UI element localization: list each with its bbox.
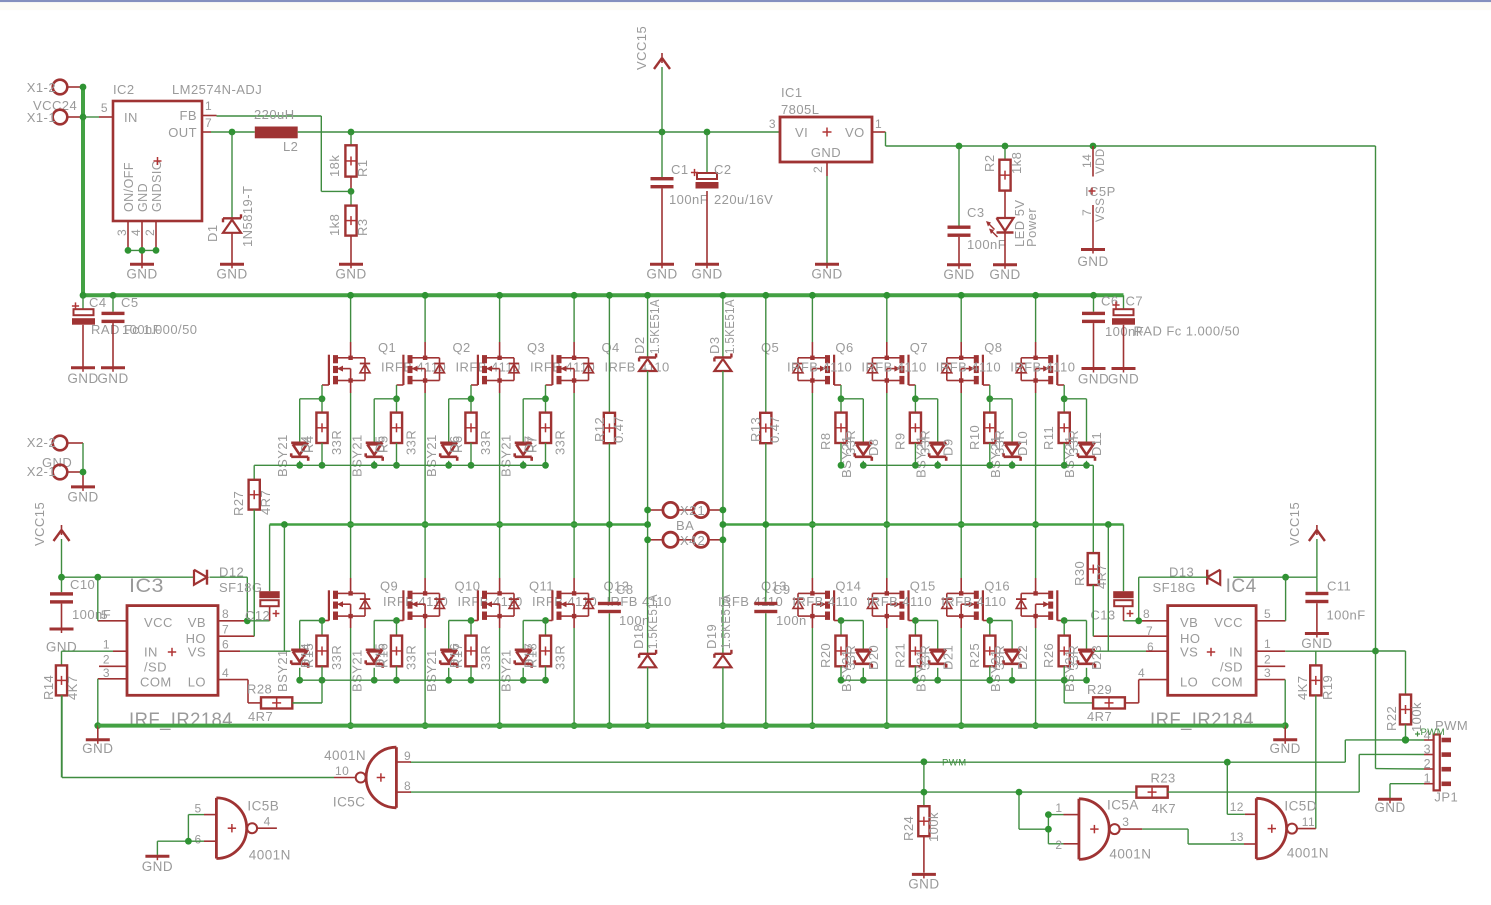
svg-text:D21: D21 xyxy=(940,645,955,670)
junction drain Q2 xyxy=(422,292,429,299)
junction D10 xyxy=(1009,462,1016,469)
resistor R10 33R xyxy=(967,399,1007,466)
svg-text:Q14: Q14 xyxy=(835,579,861,594)
wire left pad column xyxy=(647,510,649,540)
svg-text:PWM: PWM xyxy=(942,757,967,768)
ground for LED xyxy=(993,263,1017,266)
svg-text:IC5B: IC5B xyxy=(247,799,279,814)
diode D22 BSY21 xyxy=(988,621,1030,693)
wire IC5C out to R14 xyxy=(62,695,334,777)
ground for C5 xyxy=(101,366,125,369)
svg-text:IRFB 4110: IRFB 4110 xyxy=(787,360,852,375)
junction gate Q6 xyxy=(912,395,919,402)
wire gate Q10 xyxy=(397,620,404,622)
junction C9 bus xyxy=(762,722,769,729)
resistor R22 100k xyxy=(1376,651,1425,740)
junction R20 xyxy=(838,677,845,684)
wire X2 to ground xyxy=(82,443,84,486)
junction pad right xyxy=(720,521,727,528)
svg-text:SF18G: SF18G xyxy=(1153,580,1196,595)
resistor R19 4K7 xyxy=(1295,651,1335,828)
svg-text:2: 2 xyxy=(143,229,157,236)
svg-text:IN: IN xyxy=(124,110,138,125)
wire IC4 HO pin xyxy=(1093,585,1167,636)
svg-text:GND: GND xyxy=(989,267,1020,282)
capacitor C2 220u/16V xyxy=(691,132,773,264)
diode D4 BSY21 xyxy=(275,399,322,477)
op-amp IC1 7805L body xyxy=(769,85,882,173)
junction gate Q10 xyxy=(393,617,400,624)
svg-text:R19: R19 xyxy=(1320,675,1335,700)
svg-text:3: 3 xyxy=(1122,815,1129,829)
wire gate Q3 xyxy=(471,385,478,399)
diode D6 BSY21 xyxy=(424,399,471,477)
wire source Q11 xyxy=(499,616,501,726)
diode D16 BSY21 xyxy=(424,621,471,693)
svg-text:7805L: 7805L xyxy=(781,102,819,117)
svg-text:4: 4 xyxy=(1138,666,1145,680)
svg-text:33R: 33R xyxy=(404,430,419,455)
junction D9 xyxy=(934,462,941,469)
resistor R25 33R xyxy=(967,621,1007,681)
resistor R5 33R xyxy=(376,399,419,466)
svg-text:BSY21: BSY21 xyxy=(839,435,854,478)
wire JP1 pin1 ground xyxy=(1390,784,1434,798)
wire drain Q14 xyxy=(886,525,888,594)
resistor R11 33R xyxy=(1041,399,1081,466)
svg-text:BSY21: BSY21 xyxy=(275,649,290,692)
svg-text:1: 1 xyxy=(698,503,706,518)
svg-text:R28: R28 xyxy=(247,682,272,697)
diode D21 BSY21 xyxy=(913,621,955,693)
svg-text:D16: D16 xyxy=(447,643,462,668)
junction R5 xyxy=(393,462,400,469)
junction IC3 VCC xyxy=(94,574,101,581)
svg-text:X2: X2 xyxy=(680,503,697,518)
junction D21 xyxy=(934,677,941,684)
svg-text:PWM: PWM xyxy=(1421,727,1446,738)
svg-text:BSY21: BSY21 xyxy=(275,434,290,477)
svg-text:COM: COM xyxy=(140,675,172,690)
svg-text:R21: R21 xyxy=(892,643,907,668)
svg-text:BSY21: BSY21 xyxy=(988,649,1003,692)
ground for X2 xyxy=(71,485,95,488)
svg-text:GND: GND xyxy=(126,267,157,282)
svg-text:C11: C11 xyxy=(1327,578,1351,593)
ground for C7 xyxy=(1112,367,1136,370)
svg-text:/SD: /SD xyxy=(1220,660,1243,675)
junction drain Q3 xyxy=(496,292,503,299)
ground for C3 xyxy=(947,263,971,266)
svg-text:4001N: 4001N xyxy=(1109,847,1151,862)
svg-text:100nF: 100nF xyxy=(669,192,708,207)
junction R13 phase xyxy=(762,521,769,528)
svg-text:GND: GND xyxy=(1301,636,1332,651)
svg-text:IC5A: IC5A xyxy=(1107,797,1139,812)
junction gate Q14 xyxy=(912,617,919,624)
diode D9 BSY21 xyxy=(913,399,955,478)
resistor R8 33R xyxy=(818,399,858,466)
svg-text:X4: X4 xyxy=(680,533,697,548)
wire gate Q6 xyxy=(909,385,916,399)
connector X1-2 xyxy=(27,80,83,95)
svg-text:IN: IN xyxy=(1229,645,1243,660)
svg-text:10: 10 xyxy=(335,764,349,778)
svg-text:R10: R10 xyxy=(967,425,982,450)
op-amp IC2 LM2574N-ADJ body xyxy=(101,82,262,236)
junction drain Q16 phase xyxy=(1032,521,1039,528)
wire drain Q15 xyxy=(960,525,962,594)
svg-text:D3: D3 xyxy=(707,336,722,354)
pad K-2 right xyxy=(693,532,723,547)
svg-text:GND: GND xyxy=(1077,254,1108,269)
junction IC2 pin3 xyxy=(125,247,132,254)
junction source Q11 xyxy=(496,722,503,729)
wire drain Q5 xyxy=(811,295,813,358)
svg-text:1k8: 1k8 xyxy=(1009,152,1024,174)
net label PWM at JP1 xyxy=(1415,727,1445,738)
inductor L2 220uH xyxy=(254,107,298,154)
wire drain Q16 xyxy=(1035,525,1037,594)
svg-text:Q4: Q4 xyxy=(602,340,620,355)
svg-text:1: 1 xyxy=(103,638,110,652)
resistor R21 33R xyxy=(892,621,932,681)
junction PWM branch xyxy=(1224,759,1231,766)
svg-text:C5: C5 xyxy=(121,295,139,310)
junction R1/R3 node xyxy=(348,188,355,195)
wire IC5A out to IC5D xyxy=(1142,829,1244,844)
wire right pad column xyxy=(722,510,724,540)
op-amp IC5D 4001N xyxy=(1230,798,1329,860)
svg-text:VCC15: VCC15 xyxy=(634,26,649,70)
wire IC3 IN pin xyxy=(62,650,128,652)
junction D6 xyxy=(445,462,452,469)
capacitor C12 100nF bootstrap xyxy=(245,591,280,623)
junction R16 xyxy=(393,677,400,684)
diode D15 BSY21 xyxy=(350,621,397,693)
svg-text:220u/16V: 220u/16V xyxy=(714,192,773,207)
resistor R7 33R xyxy=(525,399,568,466)
op-amp IC5A 4001N xyxy=(1055,797,1151,861)
diode D23 BSY21 xyxy=(1062,621,1104,693)
capacitor C5 100nF xyxy=(102,295,162,367)
svg-text:R27: R27 xyxy=(231,491,246,516)
junction C1 top xyxy=(659,129,666,136)
capacitor C9 100n xyxy=(754,582,806,726)
transistor Q16 IRFB4110 xyxy=(941,579,1057,621)
junction drain Q6 xyxy=(883,292,890,299)
svg-text:X1-1: X1-1 xyxy=(27,110,56,125)
transistor Q3 IRFB4110 xyxy=(478,340,595,385)
junction D17 xyxy=(520,677,527,684)
connector JP1 xyxy=(1424,718,1469,805)
svg-text:VS: VS xyxy=(188,645,206,660)
wire IC2 OUT xyxy=(202,131,255,133)
wire drain Q10 xyxy=(424,525,426,594)
junction R17 xyxy=(468,677,475,684)
svg-text:Q1: Q1 xyxy=(378,340,396,355)
junction X1-2 xyxy=(80,84,87,91)
junction drain Q12 phase xyxy=(571,521,578,528)
svg-text:X2-2: X2-2 xyxy=(27,435,56,450)
junction D5 xyxy=(371,462,378,469)
svg-text:C13: C13 xyxy=(1090,608,1115,623)
svg-text:R13: R13 xyxy=(748,417,763,442)
wire main 24V bus xyxy=(81,293,1124,297)
svg-text:IRFB 4110: IRFB 4110 xyxy=(792,594,857,609)
diode D2 1.5KE51A xyxy=(632,295,662,510)
junction gate Q5 xyxy=(838,395,845,402)
svg-text:C7: C7 xyxy=(1126,294,1144,309)
connector X2-1 xyxy=(27,464,83,479)
svg-text:R3: R3 xyxy=(355,218,370,236)
svg-text:GND: GND xyxy=(646,267,677,282)
junction drain Q1 xyxy=(347,292,354,299)
junction R1 top xyxy=(348,129,355,136)
svg-text:VO: VO xyxy=(845,125,865,140)
svg-text:C1: C1 xyxy=(671,162,689,177)
svg-text:X1-2: X1-2 xyxy=(27,80,56,95)
wire source Q12 xyxy=(573,616,575,726)
svg-text:GND: GND xyxy=(335,267,366,282)
wire IC4 VB pin xyxy=(1124,620,1168,622)
svg-text:D2: D2 xyxy=(632,336,647,354)
capacitor C10 100nF xyxy=(50,577,111,628)
junction IC4 VCC xyxy=(1282,574,1289,581)
svg-text:OUT: OUT xyxy=(168,125,197,140)
svg-text:D20: D20 xyxy=(866,645,881,670)
pad K-1 right xyxy=(693,502,723,517)
wire bottom-left gate rail xyxy=(292,680,545,703)
svg-text:33R: 33R xyxy=(329,430,344,455)
junction C2 top xyxy=(704,129,711,136)
junction R18 xyxy=(542,677,549,684)
svg-text:GND: GND xyxy=(1078,372,1109,387)
junction drain Q7 xyxy=(958,292,965,299)
svg-text:33R: 33R xyxy=(478,645,493,670)
svg-text:Q2: Q2 xyxy=(453,340,471,355)
junction R15 xyxy=(319,677,326,684)
wire PWM line xyxy=(410,740,1434,762)
junction source Q15 xyxy=(958,722,965,729)
junction drain Q13 phase xyxy=(809,521,816,528)
junction IC2 pin4 xyxy=(139,247,146,254)
wire source Q10 xyxy=(424,616,426,726)
svg-text:0.47: 0.47 xyxy=(611,416,626,443)
connector X1-1 xyxy=(27,110,83,125)
junction C3 top xyxy=(956,143,963,150)
svg-text:GND: GND xyxy=(908,877,939,892)
transistor Q2 IRFB4110 xyxy=(403,340,520,385)
junction gate Q2 xyxy=(393,395,400,402)
svg-text:JP1: JP1 xyxy=(1434,790,1458,805)
junction source Q9 xyxy=(347,722,354,729)
junction R13 bus xyxy=(762,292,769,299)
svg-text:5: 5 xyxy=(195,802,202,816)
wire L2 to R1 to VCC15 rail xyxy=(298,131,780,133)
svg-text:R1: R1 xyxy=(355,159,370,177)
wire IC3 VCC pin xyxy=(98,577,127,621)
svg-text:D17: D17 xyxy=(522,643,537,668)
junction gate Q8 xyxy=(1061,395,1068,402)
wire left phase rail xyxy=(270,525,648,592)
wire IC4 VCC pin xyxy=(1256,577,1286,621)
svg-text:GND: GND xyxy=(1108,372,1139,387)
op-amp IC4 IR2184 body xyxy=(1138,576,1271,696)
transistor Q4 IRFB4110 xyxy=(552,340,669,385)
svg-text:2: 2 xyxy=(103,653,110,667)
junction D19 bus xyxy=(720,722,727,729)
svg-text:1.5KE51A: 1.5KE51A xyxy=(722,299,737,354)
ground for IC1 xyxy=(815,263,839,266)
diode D5 BSY21 xyxy=(350,399,397,477)
resistor R28 4R7 xyxy=(247,682,322,725)
diode D10 BSY21 xyxy=(988,399,1030,478)
junction pad left xyxy=(644,521,651,528)
ground for C2 xyxy=(695,263,719,266)
svg-text:D7: D7 xyxy=(522,435,537,453)
wire drain Q6 xyxy=(886,295,888,358)
svg-text:4001N: 4001N xyxy=(324,748,366,763)
svg-text:3: 3 xyxy=(769,117,776,131)
svg-text:R29: R29 xyxy=(1087,682,1112,697)
wire VCC15 right rail xyxy=(1233,576,1317,578)
junction R6 xyxy=(468,462,475,469)
svg-text:R26: R26 xyxy=(1041,643,1056,668)
resistor R18 33R xyxy=(525,621,568,681)
junction source Q12 xyxy=(571,722,578,729)
junction pin8 line IC5A xyxy=(1016,789,1023,796)
wire gate Q7 xyxy=(983,385,990,399)
svg-text:GND: GND xyxy=(1270,741,1301,756)
svg-text:4R7: 4R7 xyxy=(258,490,273,515)
svg-text:C2: C2 xyxy=(714,162,732,177)
junction R22 bottom xyxy=(1402,736,1409,743)
wire IC3 VS pin xyxy=(218,525,291,652)
svg-text:2: 2 xyxy=(1424,757,1431,771)
svg-text:R11: R11 xyxy=(1041,426,1056,450)
junction gate Q7 xyxy=(986,395,993,402)
junction X2-1 xyxy=(80,469,87,476)
wire right phase rail xyxy=(723,525,1124,592)
ground for R24 xyxy=(912,873,936,876)
svg-text:BSY21: BSY21 xyxy=(1062,435,1077,478)
svg-text:R20: R20 xyxy=(818,643,833,668)
svg-text:D18: D18 xyxy=(631,624,646,649)
capacitor C11 100nF xyxy=(1305,577,1365,632)
junction R8 xyxy=(838,462,845,469)
svg-text:Q3: Q3 xyxy=(527,340,545,355)
svg-text:D13: D13 xyxy=(1169,565,1194,580)
junction IC4 COM bus xyxy=(1282,722,1289,729)
svg-text:IC5C: IC5C xyxy=(333,795,366,810)
svg-text:R22: R22 xyxy=(1384,706,1399,731)
resistor R12 0.47 xyxy=(592,295,626,602)
svg-text:IC3: IC3 xyxy=(129,576,164,597)
svg-text:IRFB 4110: IRFB 4110 xyxy=(1010,360,1075,375)
svg-text:R25: R25 xyxy=(967,643,982,668)
svg-text:VB: VB xyxy=(188,615,206,630)
junction gate Q16 xyxy=(1061,617,1068,624)
junction R24 top xyxy=(921,789,928,796)
svg-text:BA: BA xyxy=(676,518,694,533)
wire IC2 bottom pins to ground xyxy=(128,221,156,264)
junction C4 xyxy=(80,292,87,299)
junction R26 xyxy=(1061,677,1068,684)
wire gate Q9 xyxy=(322,620,329,622)
junction IN net xyxy=(1372,648,1379,655)
svg-text:C9: C9 xyxy=(773,582,791,597)
svg-text:33R: 33R xyxy=(329,645,344,670)
svg-text:BSY21: BSY21 xyxy=(424,434,439,477)
diode D17 BSY21 xyxy=(499,621,546,693)
svg-text:D5: D5 xyxy=(373,435,388,453)
svg-text:D9: D9 xyxy=(940,438,955,456)
ground for R3 xyxy=(339,263,363,266)
svg-text:D23: D23 xyxy=(1089,645,1104,670)
wire source Q13 xyxy=(811,616,813,726)
svg-text:GND: GND xyxy=(67,489,98,504)
svg-text:BSY21: BSY21 xyxy=(913,649,928,692)
svg-text:1: 1 xyxy=(1055,801,1062,815)
svg-text:2: 2 xyxy=(698,533,706,548)
svg-text:Q6: Q6 xyxy=(835,340,853,355)
resistor R15 33R xyxy=(301,621,344,681)
wire source Q7 to phase xyxy=(960,381,962,525)
wire gate Q4 xyxy=(546,385,553,399)
wire gate Q14 xyxy=(909,620,916,622)
supply VCC15 right xyxy=(1287,502,1325,577)
svg-text:3: 3 xyxy=(1264,666,1271,680)
junction D15 xyxy=(371,677,378,684)
svg-text:GND: GND xyxy=(216,267,247,282)
wire IC3 HO pin xyxy=(218,510,254,637)
svg-text:GND: GND xyxy=(136,183,150,212)
wire drain Q9 xyxy=(350,525,352,594)
junction pad left xyxy=(644,536,651,543)
diode D20 BSY21 xyxy=(839,621,881,693)
wire source Q4 to phase xyxy=(573,381,575,525)
svg-text:18k: 18k xyxy=(327,155,342,177)
junction X1-1 xyxy=(80,114,87,121)
diode D14 BSY21 xyxy=(275,621,322,693)
wire IC3 /SD pin xyxy=(99,665,127,667)
svg-text:GND: GND xyxy=(811,267,842,282)
junction gate Q11 xyxy=(468,617,475,624)
svg-text:VS: VS xyxy=(1180,645,1198,660)
wire source Q16 xyxy=(1035,616,1037,726)
svg-text:IRFB 4110: IRFB 4110 xyxy=(861,360,926,375)
svg-text:R30: R30 xyxy=(1072,561,1087,586)
junction R12 bus xyxy=(606,292,613,299)
wire gate Q5 xyxy=(834,385,841,399)
junction gate Q9 xyxy=(319,617,326,624)
wire drain Q2 xyxy=(424,295,426,358)
wire drain Q12 xyxy=(573,525,575,594)
svg-text:33R: 33R xyxy=(404,645,419,670)
svg-text:GND: GND xyxy=(97,371,128,386)
junction IC5B inputs xyxy=(185,838,192,845)
junction IC5P VDD xyxy=(1090,143,1097,150)
svg-text:SF18G: SF18G xyxy=(219,580,262,595)
svg-text:IRFB 4110: IRFB 4110 xyxy=(867,594,932,609)
capacitor C7 RAD 1000/50 xyxy=(1112,294,1240,368)
junction right phase VS xyxy=(1105,521,1112,528)
svg-text:IC5D: IC5D xyxy=(1284,799,1317,814)
transistor Q6 IRFB4110 xyxy=(835,340,926,385)
junction source Q10 xyxy=(422,722,429,729)
junction D2 bus xyxy=(644,292,651,299)
